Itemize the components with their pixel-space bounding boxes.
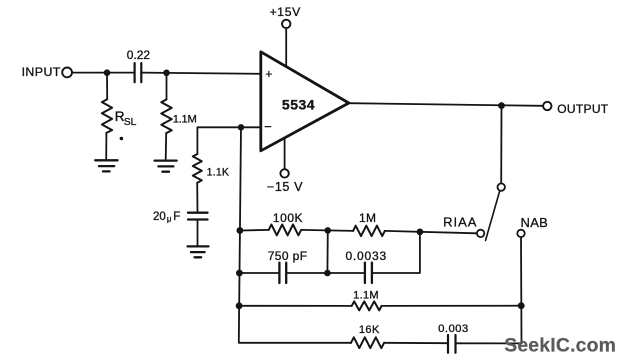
svg-text:−: − [264, 119, 272, 134]
svg-text:F: F [173, 211, 180, 223]
svg-text:INPUT: INPUT [22, 65, 61, 79]
wire input line left [73, 72, 134, 74]
op-amp U1 5534 [261, 52, 349, 151]
wire switch pole [500, 106, 502, 183]
wire +15V supply [285, 29, 287, 67]
wire inverting input [197, 126, 260, 128]
resistor 1.1K [193, 154, 202, 183]
wire row1-row2 link [326, 230, 328, 273]
svg-text:20: 20 [153, 211, 166, 223]
svg-text:750 pF: 750 pF [268, 249, 308, 263]
svg-text:+15V: +15V [270, 5, 301, 19]
switch blade SW1 [486, 191, 500, 241]
wire row4 mid [384, 342, 448, 344]
ground RSL [95, 160, 117, 171]
node row1 right [417, 229, 424, 236]
node junction A [104, 69, 111, 76]
wire row2 right [372, 232, 420, 273]
node bus row1 [237, 227, 244, 234]
svg-text:NAB: NAB [521, 215, 549, 230]
node -15V terminal [280, 169, 288, 177]
node output junction [498, 102, 505, 109]
svg-text:OUTPUT: OUTPUT [557, 102, 608, 116]
svg-text:1.1K: 1.1K [207, 167, 230, 179]
svg-text:RIAA: RIAA [443, 214, 477, 229]
svg-text:0.003: 0.003 [438, 323, 469, 335]
node +15V terminal [282, 20, 290, 28]
capacitor 0.0033 [365, 263, 372, 283]
node bus row2 [236, 270, 243, 277]
wire row3 [239, 305, 352, 307]
capacitor 0.003 [448, 335, 456, 353]
wire NAB down [520, 238, 523, 344]
wire 20uF to ground [197, 220, 199, 247]
node row3 right [518, 302, 525, 309]
wire RSL branch [106, 73, 108, 100]
node NAB terminal [517, 230, 524, 237]
node row1 mid [325, 227, 332, 234]
svg-text:SeekIC.com: SeekIC.com [504, 334, 616, 356]
node INPUT terminal [62, 68, 72, 78]
resistor 1.1M input [161, 99, 171, 133]
svg-text:SL: SL [124, 117, 137, 128]
wire output [349, 103, 542, 106]
wire row2 mid [286, 272, 365, 274]
wire input line right [141, 73, 260, 74]
svg-text:+: + [265, 67, 272, 81]
wire row1 left [240, 229, 269, 232]
resistor 16K [351, 337, 384, 348]
wire feedback bus [239, 127, 241, 341]
footnote asterisk [120, 137, 124, 141]
node OUTPUT terminal [543, 102, 551, 110]
wire row4 left [239, 341, 351, 342]
node RIAA terminal [477, 230, 484, 237]
svg-text:1.1M: 1.1M [173, 114, 197, 126]
wire 1.1K branch [196, 127, 198, 154]
node bus row3 [236, 302, 243, 309]
svg-text:μ: μ [167, 215, 172, 224]
svg-text:−15 V: −15 V [267, 180, 303, 194]
node inverting junction [238, 124, 244, 130]
node junction B [163, 70, 170, 77]
wire row2 left [239, 272, 279, 274]
wire -15V supply [284, 138, 286, 169]
svg-text:1.1M: 1.1M [353, 290, 379, 302]
wire row4 right [456, 342, 522, 344]
capacitor 750pF [279, 263, 286, 283]
wire 1.1M branch [166, 73, 168, 100]
wire row3 right [382, 305, 522, 307]
wire row1 mid [301, 230, 353, 231]
svg-text:5534: 5534 [282, 97, 315, 113]
capacitor C 0.22 [135, 63, 142, 82]
wire 1.1M to ground [165, 133, 168, 159]
node switch pole terminal [498, 183, 505, 190]
resistor 1.1M feedback [352, 301, 382, 310]
svg-text:0.0033: 0.0033 [345, 249, 387, 263]
svg-text:0.22: 0.22 [127, 48, 151, 62]
svg-text:16K: 16K [359, 324, 380, 336]
node row2 mid [324, 270, 331, 277]
resistor RSL [102, 99, 112, 133]
capacitor 20uF [188, 213, 208, 220]
resistor 100K [269, 225, 302, 236]
wire row1 to RIAA [385, 231, 477, 233]
ground 1.1M [155, 161, 177, 172]
wire RSL to ground [105, 133, 107, 159]
wire 1.1K to cap [196, 183, 198, 213]
resistor 1M [353, 226, 385, 236]
svg-text:100K: 100K [273, 211, 303, 225]
svg-text:1M: 1M [359, 211, 376, 225]
ground 20uF [188, 246, 209, 257]
